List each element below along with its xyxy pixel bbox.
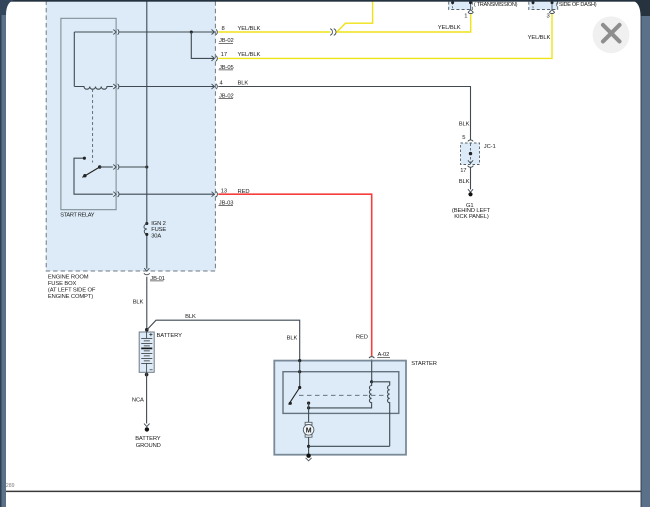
top edge strip: [0, 0, 650, 2]
solenoid top link: [372, 382, 390, 386]
fuse IGN 2 label: [151, 221, 166, 239]
wire: relay coil top line (to pin 8): [74, 31, 113, 33]
relay switch fixed contact wire: [74, 158, 113, 194]
wire contact to motor: [308, 403, 310, 422]
svg-text:YEL/BLK: YEL/BLK: [438, 25, 461, 31]
svg-text:BATTERY: BATTERY: [157, 333, 183, 339]
svg-text:( TRANSMISSION): ( TRANSMISSION): [474, 2, 518, 8]
fusebox edge connector pin 17: [212, 56, 218, 61]
yellow wire pin 8 to TRANSMISSION: [218, 14, 470, 32]
starter switch blade: [289, 388, 300, 405]
svg-text:(AT LEFT SIDE OF: (AT LEFT SIDE OF: [48, 288, 96, 294]
battery: [139, 332, 154, 372]
solenoid hold coil: [388, 386, 390, 447]
wire: pin13 row to fusebox edge: [119, 193, 214, 195]
wire: coil row to fusebox edge pin4: [119, 86, 214, 88]
svg-text:RED: RED: [356, 335, 368, 341]
svg-text:( SIDE OF DASH): ( SIDE OF DASH): [556, 2, 597, 8]
svg-text:ENGINE COMPT): ENGINE COMPT): [48, 294, 93, 300]
svg-text:BLK: BLK: [459, 179, 470, 185]
svg-text:M: M: [306, 427, 312, 434]
battery feed: junction dot above battery: [145, 328, 149, 332]
top-right rounded corner: [631, 0, 650, 16]
connector JB-01 at fusebox bottom: [144, 268, 150, 275]
wire into starter switch: [299, 361, 301, 388]
svg-text:NCA: NCA: [132, 398, 144, 404]
relay edge connector switch common: [113, 164, 119, 169]
svg-text:IGN 2: IGN 2: [151, 221, 166, 227]
motor M: [303, 422, 314, 437]
relay edge connector pin13: [113, 192, 119, 198]
junction dot on main vertical: [145, 165, 148, 168]
svg-text:FUSE: FUSE: [151, 227, 166, 233]
starter outer box: [274, 361, 406, 455]
relay edge connector coil/pin4: [113, 84, 119, 89]
svg-text:YEL/BLK: YEL/BLK: [238, 52, 261, 58]
wire battery to ground: [146, 372, 148, 423]
svg-text:BLK: BLK: [133, 299, 144, 305]
starter switch pivot dot: [298, 386, 301, 389]
wire motor to ground: [308, 437, 310, 456]
engine room fuse box label: [48, 275, 96, 301]
svg-text:(BEHIND LEFT: (BEHIND LEFT: [452, 208, 491, 214]
dot at outer box top: [298, 359, 301, 362]
junction connector JC-1 box: [461, 143, 480, 165]
connector A-02 into starter: [369, 357, 374, 363]
dot at inner box top: [298, 370, 301, 373]
fusebox edge connector pin 13: [212, 192, 218, 198]
dashed actuator link of relay: [92, 89, 94, 163]
starter inner box: [283, 372, 399, 414]
connector arrow out of JC-1 pin 17: [468, 160, 474, 167]
junction dot pin8/pin17 branch: [190, 30, 193, 33]
main vertical battery feed wire: [146, 0, 148, 332]
svg-text:BLK: BLK: [185, 314, 196, 320]
wire: branch down to pin17 row: [191, 32, 214, 58]
ground G1 symbol: [468, 189, 473, 192]
TRANSMISSION connector box: [449, 0, 473, 10]
SIDE OF DASH connector box: [529, 0, 558, 10]
solenoid top junction dot: [370, 380, 373, 383]
fusebox edge connector pin 8: [212, 29, 218, 34]
red feed down into solenoid: [371, 361, 373, 382]
connector at TRANSMISSION pin 1: [468, 10, 473, 14]
close button: [593, 16, 630, 53]
svg-text:START RELAY: START RELAY: [60, 213, 94, 219]
starter ground dot: [306, 454, 310, 458]
wire battery to starter: [147, 320, 300, 361]
inline connector on yellow wire: [330, 29, 336, 36]
SIDE OF DASH box pins: [532, 3, 534, 10]
svg-text:BLK: BLK: [459, 122, 470, 128]
relay switch common wire to junction: [100, 166, 113, 168]
svg-text:JC-1: JC-1: [484, 144, 496, 150]
svg-text:STARTER: STARTER: [411, 361, 437, 367]
fusebox edge connector pin 4: [212, 84, 218, 89]
svg-text:BLK: BLK: [287, 336, 298, 342]
starter switch blade end dot: [289, 402, 292, 405]
ground G1 labels: [452, 203, 491, 220]
junction dot below motor: [307, 445, 310, 448]
svg-text:BLK: BLK: [238, 80, 249, 86]
wire: relay coil left vertical: [73, 32, 75, 87]
relay switch blade: [82, 167, 99, 177]
TRANSMISSION box pins: [452, 3, 454, 10]
connector at SIDE OF DASH pin 3: [549, 10, 554, 14]
fuse IGN 2 element: [144, 224, 147, 235]
svg-text:8: 8: [222, 26, 225, 32]
svg-text:1: 1: [464, 13, 467, 19]
pull-in coil bottom link to motor line: [309, 404, 372, 408]
dashed actuator line in starter: [299, 394, 389, 396]
top-left rounded corner: [0, 0, 15, 15]
wire: relay to fusebox edge pin8 row: [119, 31, 214, 33]
relay switch blade dots: [98, 165, 101, 168]
svg-text:30A: 30A: [151, 233, 161, 239]
svg-text:YEL/BLK: YEL/BLK: [238, 26, 261, 32]
black wire pin 4 down to JC-1: [218, 87, 470, 140]
battery ground labels: [135, 436, 161, 449]
fuse IGN 2 top dot: [145, 222, 148, 225]
fuse IGN 2 bottom dot: [145, 233, 148, 236]
svg-text:3: 3: [547, 13, 550, 19]
svg-text:17: 17: [460, 168, 466, 174]
svg-text:FUSE BOX: FUSE BOX: [48, 281, 77, 287]
svg-text:KICK PANEL): KICK PANEL): [454, 214, 489, 220]
relay edge connector pin8: [113, 29, 119, 34]
starter switch contact dot: [307, 402, 310, 405]
svg-text:GROUND: GROUND: [136, 443, 161, 449]
right chrome bar: [641, 0, 650, 507]
yellow branch wire exiting top: [337, 0, 373, 32]
svg-text:BATTERY: BATTERY: [135, 436, 161, 442]
wire JC-1 to ground G1: [470, 168, 472, 190]
start relay box: [61, 18, 116, 209]
battery ground symbol: [144, 424, 150, 427]
solenoid pull-in coil: [369, 382, 371, 404]
JC-1 internal dashed link: [470, 144, 472, 165]
left chrome bar: [0, 0, 6, 507]
engine room fuse box (dashed blue box): [46, 0, 215, 271]
connector arrow into JC-1: [468, 140, 473, 146]
coil of start relay: [74, 87, 113, 90]
starter ground chevron: [306, 458, 312, 461]
yellow wire pin 17 to SIDE OF DASH: [218, 14, 552, 59]
red wire pin 13 to starter: [218, 194, 371, 356]
svg-text:17: 17: [221, 52, 227, 58]
JC-1 internal dot: [469, 152, 472, 155]
return wire to hold coil: [309, 445, 390, 447]
battery bottom junction dot: [145, 373, 149, 377]
svg-text:ENGINE ROOM: ENGINE ROOM: [48, 275, 89, 281]
relay switch fixed contact dot: [83, 157, 86, 160]
junction dot on motor line: [307, 406, 310, 409]
bottom rule line: [5, 490, 641, 492]
wire: switch common to main vertical: [119, 166, 147, 168]
svg-text:YEL/BLK: YEL/BLK: [528, 35, 551, 41]
svg-text:5: 5: [462, 135, 465, 141]
